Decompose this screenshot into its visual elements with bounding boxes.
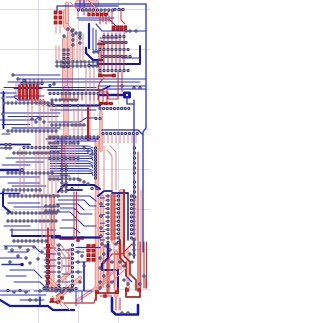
via row y125 (51, 124, 85, 126)
via col x73 (72, 29, 74, 46)
component U5 red pads (87, 245, 95, 262)
wire blue y64 right (98, 46, 140, 64)
wire pink diag bottom 1 (50, 250, 70, 290)
wire blue top rail1 (57, 6, 118, 12)
via row y1335r (102, 132, 138, 134)
wire red verticals left long (36, 131, 56, 196)
wire blue y1165 (8, 116, 58, 118)
wire red x136 dip (135, 196, 137, 240)
wire red pair below J1 (56, 26, 60, 33)
wire red verticals bottom right (104, 242, 147, 288)
wire blue center fan bundle (48, 141, 96, 180)
component R1 red pads (112, 26, 127, 30)
node red pads y239 (77, 237, 84, 242)
connector J3 red comb (19, 85, 39, 99)
wire blue x134 (133, 100, 135, 235)
via pads on y1055 (53, 104, 79, 106)
wire blue y128 (12, 127, 60, 129)
wire red vertical bundle tr (104, 33, 124, 72)
wire blue left edge (3, 92, 5, 128)
wire red verticals right mid (99, 88, 107, 104)
wire red bundle center x62-75 (62, 140, 75, 192)
wire red diag from comb (30, 100, 56, 131)
wire pink diag bottom 3 (46, 276, 62, 292)
via row y495 (99, 48, 129, 50)
node red pads bottom center (51, 297, 64, 304)
via pads y31 right (125, 30, 137, 32)
wire red bottom thick2 (126, 288, 140, 297)
wire blue y1445 (0, 144, 30, 146)
via row y213 (7, 212, 57, 214)
wire blue y58 stub (122, 57, 140, 59)
wire blue bottom thick (0, 300, 74, 310)
via row y103 left (3, 102, 53, 104)
wire red bottom pair (116, 298, 120, 310)
node red pad a (99, 74, 116, 77)
via row y1475 (23, 146, 57, 148)
wire pink diag bottom 2 (58, 278, 80, 298)
node blob pad (123, 92, 131, 99)
wire blue y97 l (6, 97, 44, 100)
wire red DIP pin stubs (105, 196, 135, 238)
wire red DIP inner verts (111, 194, 115, 240)
wire red bottom thick1 (96, 288, 118, 300)
via row y118r (95, 117, 101, 119)
wire blue y93 left (0, 92, 16, 94)
wire pink band x52 (50, 198, 55, 290)
wire pink right low (106, 246, 110, 292)
wire red corner fr (145, 278, 147, 288)
via row y221 (7, 220, 57, 222)
via row y62 (56, 61, 98, 63)
wire blue DIP top (98, 191, 128, 240)
wire pink right low2 (118, 246, 123, 268)
via row y131 (7, 130, 57, 132)
wire blue bottom right U (112, 298, 138, 315)
wire pink bottom diag right (78, 288, 96, 300)
via pads x134 low (133, 239, 135, 256)
wire pink comb backing (15, 83, 41, 101)
wire blue y1885 thick (66, 189, 82, 191)
wire red y239 thick (60, 238, 74, 240)
wire red verticals left low (20, 148, 24, 194)
wire blue y89 right (108, 88, 146, 90)
via row y288 (43, 287, 77, 289)
wire blue bottom rows (0, 291, 92, 300)
wire blue bundle y20 (79, 20, 116, 26)
wire blue y148 stub (0, 147, 12, 149)
via row y1085r (99, 107, 130, 109)
via scatter 244-266 (5, 246, 43, 264)
via col DIP right (117, 195, 119, 243)
via pads bottom U (121, 312, 129, 314)
via row y935 (49, 92, 99, 94)
wire blue thick x89 (88, 24, 90, 48)
wire blue x93 (92, 28, 94, 50)
wire red verticals x74-83 (74, 34, 83, 62)
wire blue y110 (50, 109, 96, 111)
wire red verticals x74-82 mid (74, 108, 82, 140)
wire blue y113 (5, 112, 60, 114)
node red pads y1035 (100, 102, 113, 105)
wire red fan U6 (52, 244, 70, 292)
via row y66 (56, 65, 98, 67)
wire red verticals topright (100, 16, 112, 24)
wire red pair x99 (99, 40, 101, 74)
via col x47 (46, 257, 48, 291)
via row y190 (3, 189, 41, 191)
via pads y300 (29, 299, 37, 301)
via row y153 (13, 152, 59, 154)
wire blue x40 drop (39, 297, 41, 306)
via row y36 under R1 (103, 35, 125, 37)
via pads right of U6 (77, 251, 85, 283)
wire blue blob tail (127, 98, 134, 104)
via row y137 (49, 136, 99, 138)
wire blue comb cross2 (14, 95, 44, 97)
wire blue corner br (133, 242, 135, 258)
wire blue y86 (98, 85, 146, 87)
via pads y75 (12, 74, 25, 82)
wire blue top rail2 (75, 4, 146, 128)
via pads y88 right (121, 85, 141, 89)
wire red bold br1 (120, 240, 126, 276)
wire blue y122 c (48, 118, 95, 122)
wire pink band x97 long (95, 140, 100, 292)
wire blue bundle y18 (77, 17, 114, 19)
via col U3 right (67, 49, 69, 68)
via col x62 low (61, 165, 63, 192)
via row y241 (13, 240, 47, 242)
via col U3 left (63, 49, 65, 68)
via pads y144 left (5, 143, 11, 149)
wire red x141 (140, 190, 142, 288)
wire red verticals center mid (86, 66, 94, 105)
wire blue y38 stub (100, 37, 118, 39)
wire pink bottom right wash2 (126, 252, 129, 290)
wire red stubs under y133 row (104, 135, 136, 143)
wire blue staircase br (102, 244, 118, 290)
via col x1345b (133, 181, 135, 198)
wire red diag top pink (70, 2, 78, 16)
wire blue y82 (8, 81, 140, 83)
wire blue y134 (2, 133, 10, 135)
via col U6 right (71, 244, 73, 291)
node pad y170 (20, 168, 24, 172)
wire blue left sparse bundle (0, 246, 46, 288)
wire pink band main (x66) (66, 12, 70, 88)
connector J1 red pads (54, 11, 62, 24)
wire blue left rows bundle (0, 158, 48, 186)
wire blue y130 right (102, 130, 142, 134)
via row top U2 (77, 9, 113, 11)
wire red verticals below comb (28, 104, 32, 129)
via scatter br (99, 243, 145, 289)
via pads mid (88, 51, 99, 67)
component J2 red pad column (46, 244, 49, 284)
via row y565 (101, 55, 131, 57)
wire pink x102 top (100, 42, 103, 62)
wire blue y170 thick (0, 169, 20, 171)
via row y179 (49, 178, 79, 180)
wire blue center 192-240 bundle (56, 196, 96, 233)
wire blue x96 (95, 30, 97, 52)
wire blue y139 (46, 138, 98, 140)
wire blue y120 (0, 116, 40, 120)
wire blue y1245 (2, 124, 30, 126)
via col U6 left (58, 244, 60, 291)
via pads y84r (49, 83, 55, 87)
wire blue mid br (126, 262, 132, 282)
via row y143 (49, 142, 79, 144)
wire pink left col2 (51, 196, 55, 244)
via cluster y206 (45, 205, 59, 212)
wire red stubs below y935 (62, 95, 98, 100)
wire red thick y755 (101, 74, 113, 76)
wire pink blob top (79, 0, 95, 9)
wire pink band x66 lower (63, 88, 69, 135)
wire red stubs top row (84, 11, 112, 15)
via col x80 (79, 32, 81, 44)
via row y173 (7, 172, 53, 174)
wire red thick x124 (123, 190, 125, 246)
wire red bold br3 (108, 244, 132, 292)
wire pink band x101 right (99, 112, 102, 150)
via row y1585 (49, 157, 79, 159)
wire blue y1055 c (48, 104, 100, 106)
wire blue left 192-240 bundle (0, 192, 60, 236)
wire red y296 stub (100, 295, 112, 297)
wire blue y75 (13, 74, 60, 76)
via row y705 (99, 69, 129, 71)
wire blue y2375 thick (52, 236, 100, 238)
via pads x3 (2, 97, 4, 115)
wire blue comb cross1 (14, 88, 42, 90)
wire blue y2475 (76, 247, 100, 249)
wire red bottom pads (96, 289, 141, 298)
via pads y1885 (71, 187, 98, 189)
wire blue DIP left stubs (100, 198, 105, 240)
wire red pair long1 (117, 72, 119, 92)
wire red diagonals bottom right (96, 266, 126, 292)
via row y291 left (7, 289, 71, 293)
wire red thick y44 (98, 43, 104, 45)
via row y100 (51, 99, 77, 101)
wire red stubs above comb (26, 80, 42, 85)
wire red bottom center (50, 301, 60, 303)
wire red verticals right of center (104, 146, 116, 190)
wire pink band main2 top (65, 4, 69, 22)
via row y196 (9, 195, 59, 197)
wire pink right DIP wash2 (119, 192, 125, 246)
via col x101 sparse (100, 203, 102, 237)
wire red diag bl1 (58, 298, 70, 310)
wire pink right DIP wash1 (100, 196, 104, 286)
wire pink bottom right wash (114, 252, 118, 296)
via row top right triple (114, 8, 124, 10)
wire blue y79 (18, 78, 146, 80)
wire red verticals left dip area (42, 196, 54, 244)
node arrow pad (20, 263, 24, 267)
wire red pair x56 (56, 46, 59, 60)
wire pink x89 mid (87, 108, 90, 140)
via pads pairs 118-124 (31, 118, 45, 123)
via pads diag2 (79, 179, 89, 185)
wire red bottom center diag (56, 288, 66, 296)
wire red corners right mid (100, 92, 118, 99)
wire red thick y1035 (100, 102, 112, 104)
wire red bold br2 (124, 240, 136, 290)
wire blue y90 (48, 86, 110, 90)
via col x66 low (65, 165, 67, 192)
via col x1345 (133, 147, 135, 174)
via pads fan (83, 147, 93, 155)
wire blue right border lower (143, 128, 146, 252)
wire blue y31 right (96, 24, 146, 31)
via diag cluster (63, 28, 81, 37)
wire blue thick right blob line (100, 94, 124, 97)
wire red diag top pink2 (88, 0, 96, 8)
wire red pair x74 center (74, 192, 77, 238)
wire blue x82 bottom (81, 292, 83, 302)
wire blue x76 bottom (75, 292, 77, 306)
wire blue y655 (88, 65, 98, 67)
via row y425 (101, 41, 127, 43)
wire blue x84 low (83, 262, 85, 290)
via col DIP left (107, 195, 109, 243)
wire red x138 (137, 152, 139, 290)
wire red y303 line (64, 296, 96, 303)
wire pink band main west (62, 40, 68, 88)
wire red thick x88 (87, 108, 89, 140)
wire red hook y78 (98, 78, 104, 92)
wire blue elbow mid (86, 48, 102, 60)
wire blue y875 (4, 87, 96, 89)
wire red x48 thick (47, 228, 49, 290)
wire red pair long2 (121, 72, 123, 92)
via col DIP right2 (130, 195, 132, 239)
via row y84 (21, 82, 43, 84)
via col x955 bundle (94, 147, 96, 179)
wire blue U6 stubs (44, 248, 86, 282)
wire red diag bl2 (52, 296, 62, 306)
wire blue verts on blob (80, 0, 84, 8)
component R2 red pads top (88, 13, 107, 16)
wire pink right DIP wash3 (111, 196, 115, 242)
wire pink band x63 mid (61, 138, 66, 165)
wire blue y184 thick (58, 185, 100, 192)
wire red x121 top (121, 9, 125, 24)
